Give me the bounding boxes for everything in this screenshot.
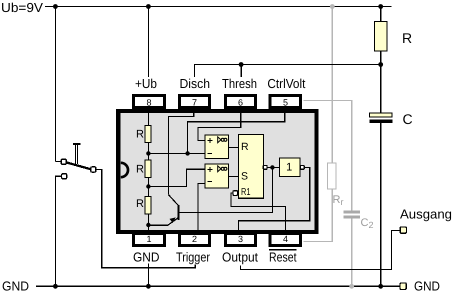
- pin 5: [270, 96, 301, 108]
- transistor Q1 discharge: collector wire from pin7: [169, 109, 194, 195]
- svg-text:Trigger: Trigger: [176, 249, 211, 264]
- wire Trigger pin2 internal to comparator 2 minus: [198, 183, 205, 233]
- node B junction (1/3 Ub): [146, 184, 150, 188]
- wire GND pin1 to ground rail: [147, 264, 149, 287]
- terminal GND right: [400, 283, 406, 289]
- svg-text:GND: GND: [414, 278, 440, 293]
- resistor R2 internal: [145, 160, 151, 178]
- node junction supply/pin8: [146, 4, 151, 9]
- svg-text:R: R: [402, 30, 412, 46]
- wire R2 to node B: [147, 178, 149, 197]
- svg-text:CtrlVolt: CtrlVolt: [267, 76, 305, 91]
- pin 8: [134, 96, 165, 108]
- wire ground rail: [36, 285, 400, 287]
- node junction R/C/Disch: [378, 62, 383, 67]
- svg-text:1: 1: [286, 162, 292, 174]
- driver output inverting bubble: [300, 166, 304, 170]
- capacitor C2 bottom plate (gray): [344, 216, 361, 219]
- resistor R: [375, 22, 388, 52]
- svg-text:7: 7: [192, 98, 197, 108]
- svg-text:R: R: [136, 198, 144, 210]
- svg-text:1: 1: [146, 234, 151, 244]
- switch contact common (right): [91, 167, 96, 172]
- pin 7: [180, 96, 210, 108]
- wire comparator 2 output to FF S input: [229, 175, 239, 177]
- wire R1 to node A: [147, 143, 149, 161]
- wire Disch-Thresh external net: [194, 65, 380, 78]
- svg-text:Reset: Reset: [269, 249, 297, 264]
- op-amp comparator U1 (threshold): [205, 135, 229, 159]
- wire R bottom to capacitor C: [380, 51, 382, 113]
- switch lever: [66, 162, 91, 169]
- wire Trigger external net: pin2 to switch: [96, 170, 195, 268]
- wire R3 to emitter node: [147, 214, 149, 234]
- svg-text:+Ub: +Ub: [135, 76, 157, 91]
- wire gray Rr pull-up net: rail to Rr, Rr to pin4: [304, 7, 333, 242]
- svg-text:Thresh: Thresh: [222, 76, 257, 91]
- node junction supply/R: [378, 4, 383, 9]
- wire switch feed vertical: [54, 7, 56, 162]
- svg-text:Ausgang: Ausgang: [400, 207, 452, 222]
- node A junction (2/3 Ub): [146, 151, 150, 155]
- terminal Ausgang: [400, 227, 406, 233]
- wire feed to NC contact: [55, 161, 61, 163]
- pin 4: [270, 234, 301, 246]
- node junction ground/switch: [53, 284, 58, 289]
- pin 3: [226, 234, 256, 246]
- svg-text:4: 4: [283, 234, 288, 244]
- buffer U4 output driver "1": [279, 158, 300, 177]
- wire emitter to divider bottom node: [148, 224, 167, 226]
- flip-flop U3 (RS): [239, 135, 264, 199]
- wire comparator 1 output to FF R input: [229, 146, 239, 148]
- switch plunger cap: [73, 143, 81, 145]
- wire Thresh drop to pin6: [240, 65, 242, 78]
- capacitor C top plate: [370, 113, 393, 117]
- wire NO contact to ground: [55, 176, 61, 286]
- wire C bottom to ground rail: [380, 123, 382, 286]
- transistor Q1 collector diagonal: [169, 195, 179, 206]
- pin 6: [226, 96, 256, 108]
- node junction ground/pin1: [146, 284, 151, 289]
- svg-text:Disch: Disch: [180, 76, 211, 91]
- wire gray CtrlVolt decoupling net: pin5 to C2 to ground: [304, 101, 352, 287]
- node junction FF output / transistor base: [270, 165, 274, 169]
- capacitor C2 top plate (gray): [344, 211, 361, 214]
- svg-text:Ub=9V: Ub=9V: [1, 0, 43, 15]
- svg-text:R1: R1: [241, 187, 251, 198]
- wire Thresh pin6 internal to comparator 1 plus: [198, 109, 241, 140]
- wire supply to resistor R: [380, 7, 382, 22]
- FF R1 inverting input bubble: [233, 191, 238, 196]
- wire +Ub pin8 feed vertical: [147, 7, 149, 78]
- svg-text:5: 5: [283, 98, 288, 108]
- wire CtrlVolt pin5 internal to node A: [188, 109, 285, 153]
- switch plunger stem: [74, 145, 76, 164]
- svg-text:Output: Output: [222, 249, 258, 264]
- IC 555 body: [118, 111, 316, 232]
- switch contact NO (lower left): [62, 174, 67, 179]
- node emitter junction: [146, 223, 150, 227]
- node junction Thresh tap: [239, 62, 244, 67]
- node junction ground/C: [378, 284, 383, 289]
- resistor R3 internal: [145, 197, 151, 215]
- label Reset overline: [269, 249, 297, 251]
- svg-text:GND: GND: [2, 278, 29, 293]
- svg-text:8: 8: [146, 98, 151, 108]
- svg-text:R: R: [241, 141, 249, 153]
- wire Output external net: pin3 to Ausgang terminal: [240, 230, 400, 269]
- svg-text:R: R: [136, 164, 144, 176]
- svg-text:S: S: [241, 170, 248, 182]
- FF output inverting bubble: [263, 165, 267, 169]
- node junction supply/switch: [53, 4, 58, 9]
- svg-text:GND: GND: [133, 249, 160, 264]
- wire internal divider feed pin8 to R1: [147, 109, 149, 126]
- wire node B to comparator 2 plus: [148, 169, 205, 186]
- op-amp comparator U2 (trigger): [205, 164, 229, 188]
- pin 1: [134, 234, 165, 246]
- svg-text:R: R: [136, 129, 144, 141]
- svg-text:6: 6: [238, 98, 243, 108]
- node gray junction ground/C2: [349, 284, 354, 289]
- capacitor C bottom plate: [369, 120, 392, 123]
- wire top supply rail: [45, 6, 392, 8]
- svg-text:C: C: [403, 111, 413, 127]
- wire FF output to transistor base: [180, 167, 273, 212]
- wire FF output to driver: [268, 166, 280, 168]
- svg-text:3: 3: [238, 234, 243, 244]
- transistor Q1 base bar: [178, 205, 180, 220]
- resistor Rr (gray, optional): [327, 163, 336, 189]
- IC index notch: [121, 163, 128, 177]
- svg-text:2: 2: [192, 234, 197, 244]
- node junction node A / CtrlVolt: [185, 151, 189, 155]
- wire node A to comparator 1 minus: [148, 152, 205, 154]
- switch push-button (Taster): [55, 143, 95, 286]
- node gray junction supply/Rr: [330, 4, 335, 9]
- pin 2: [180, 234, 210, 246]
- resistor R1 internal: [145, 126, 151, 143]
- wire Reset pin4 internal to R1 bubble: [231, 193, 286, 233]
- switch contact NC (upper left): [61, 159, 66, 164]
- transistor Q1 emitter diagonal with arrow: [168, 218, 179, 226]
- wire driver output to pin 3: [239, 168, 310, 234]
